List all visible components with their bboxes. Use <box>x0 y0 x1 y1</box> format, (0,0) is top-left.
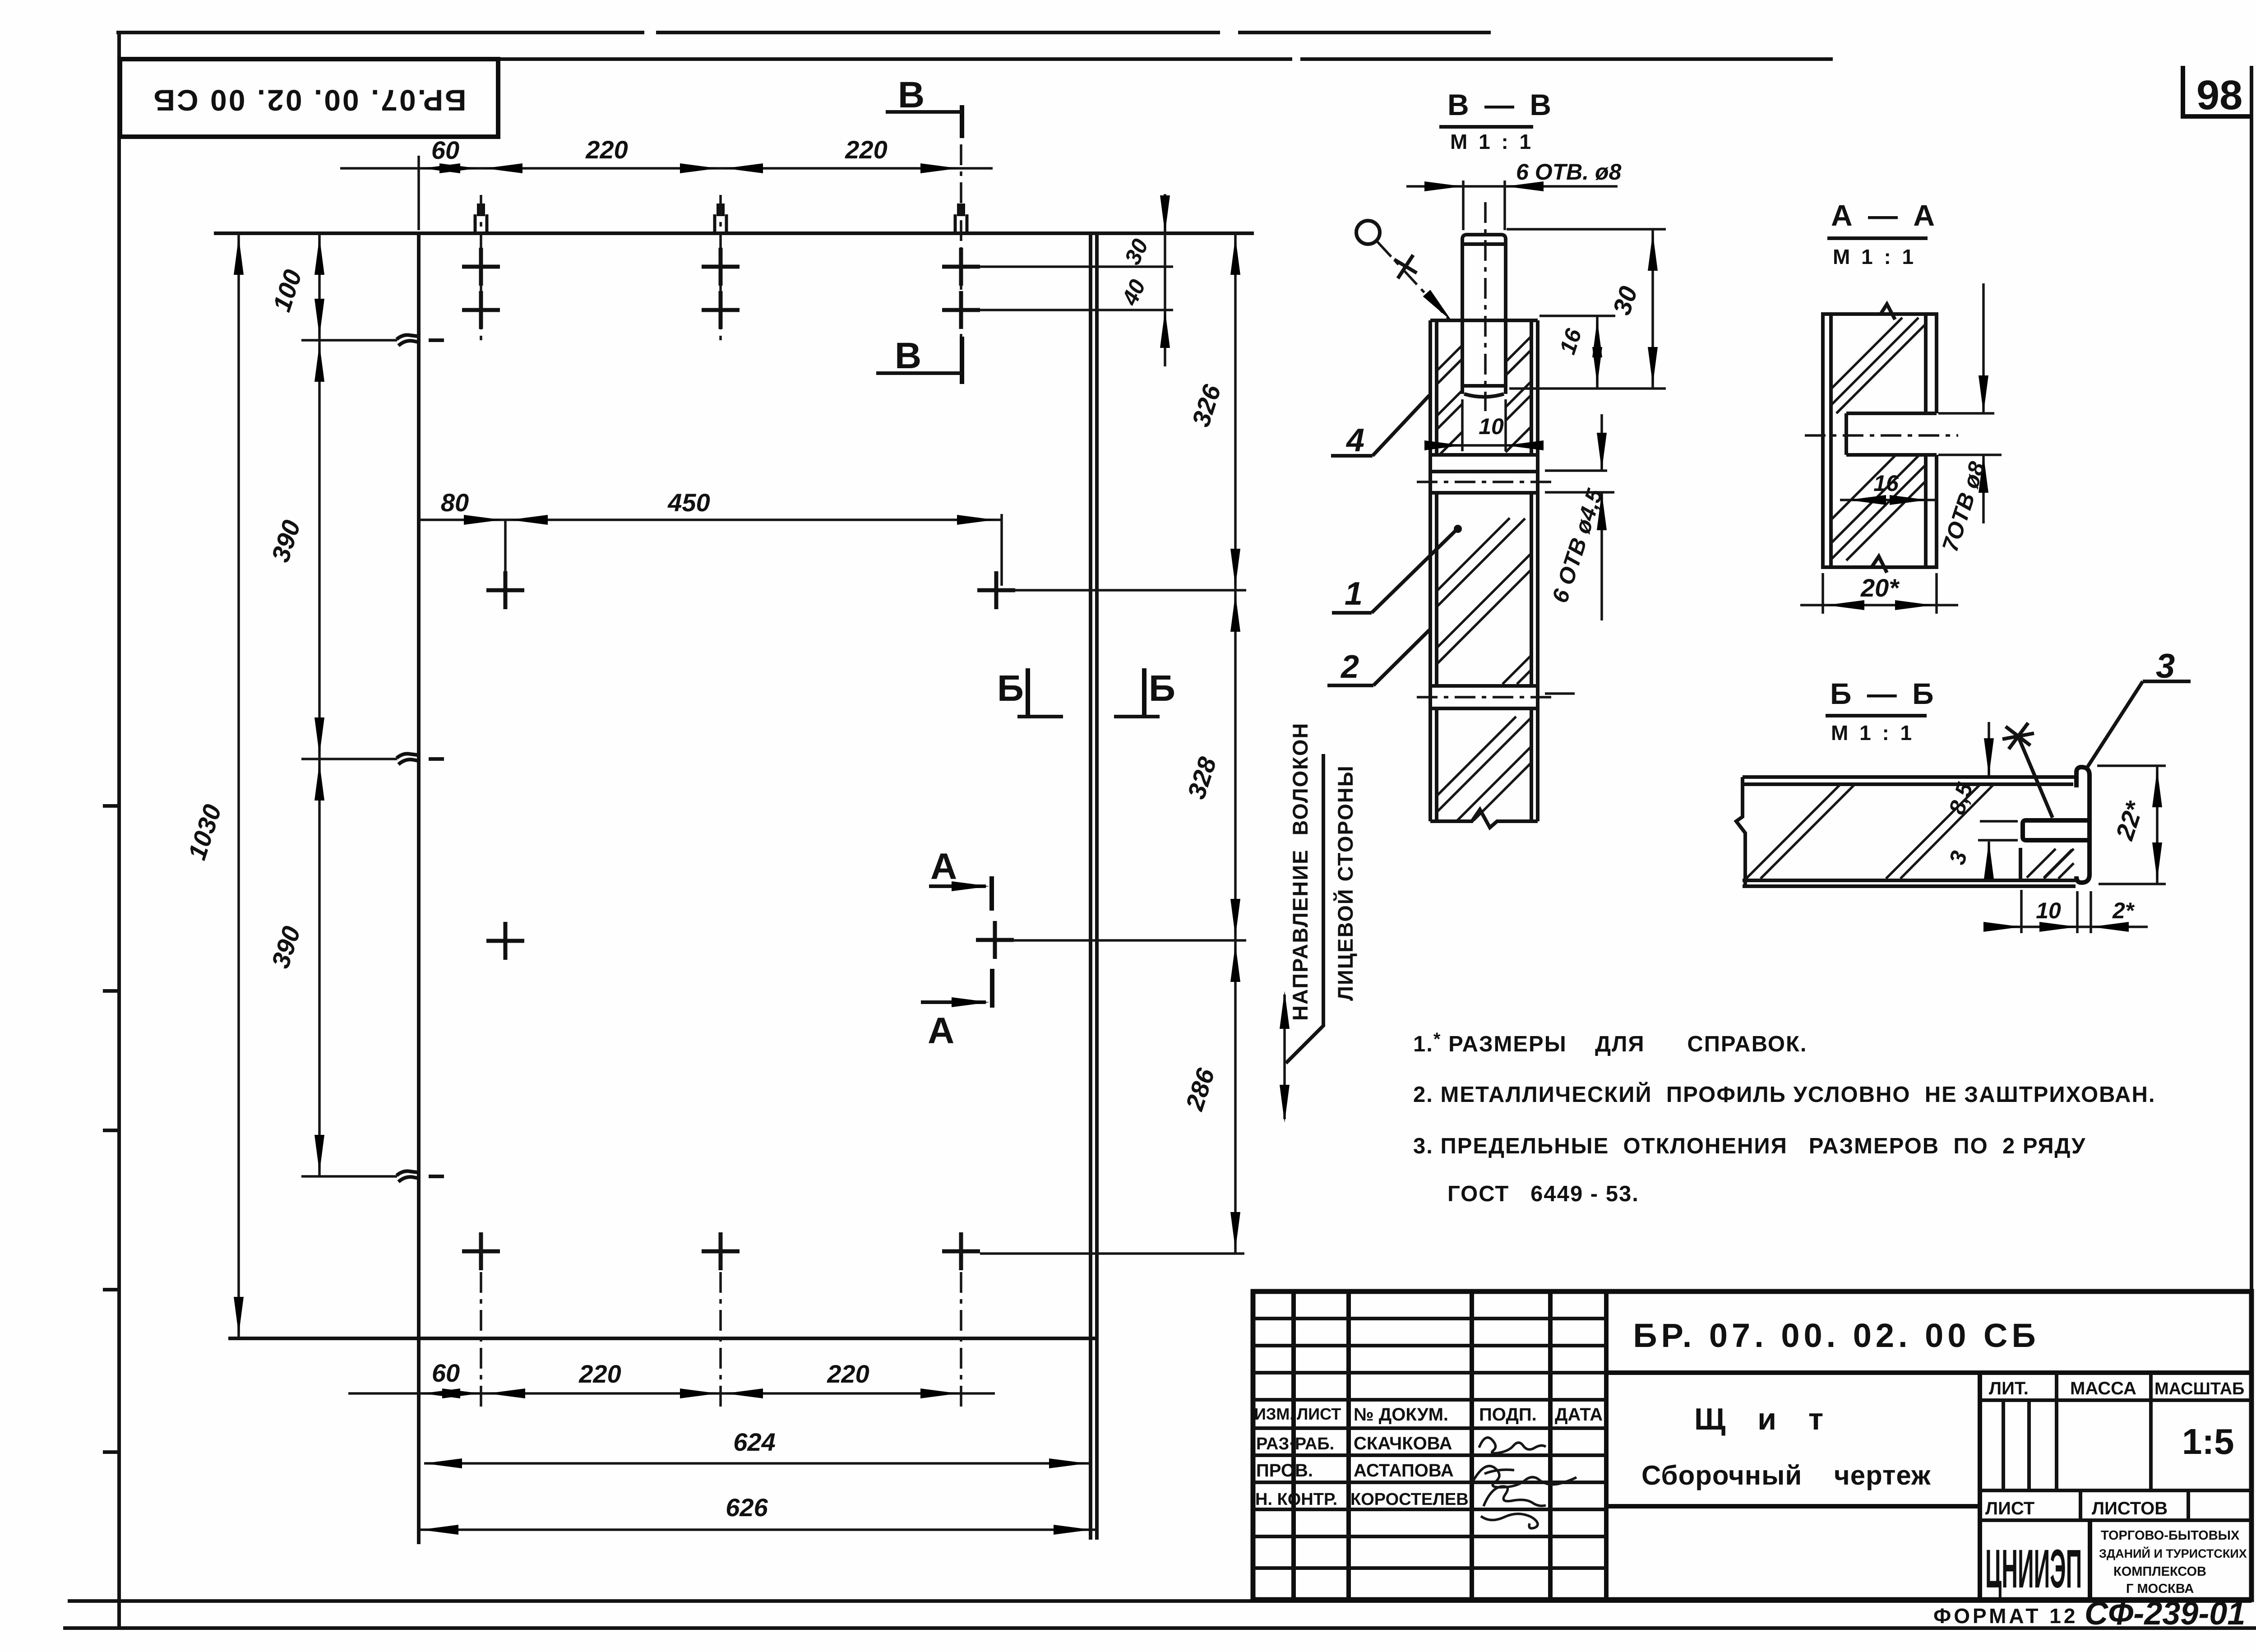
hole dim line with tails <box>1600 414 1603 471</box>
centerline col 1 <box>480 195 482 343</box>
hinge 2 extension <box>301 758 397 760</box>
grain direction label line <box>1286 754 1323 1063</box>
left border fold tick 3 <box>103 1129 121 1132</box>
svg-text:328: 328 <box>1182 753 1222 802</box>
hole cross r2c3 <box>942 291 980 329</box>
dim 30 extension from bolt top <box>1507 228 1666 231</box>
svg-text:Б: Б <box>1149 668 1175 709</box>
centerline col3 bottom <box>960 1234 962 1412</box>
section mark Б right bar <box>1142 668 1146 718</box>
dim 16 slot line <box>1840 499 1936 501</box>
right sub-grid divider <box>1978 1373 1982 1600</box>
hinge left 1 <box>397 335 418 346</box>
junction band 1 line C <box>1430 491 1538 495</box>
hinge left 2 <box>397 754 418 764</box>
junction band 2 line A <box>1430 684 1538 688</box>
svg-text:М 1 : 1: М 1 : 1 <box>1833 245 1916 268</box>
slot top extension <box>1938 412 1994 415</box>
hole cross r1c1 <box>462 248 500 286</box>
sheet outer top border <box>116 31 1491 34</box>
svg-text:220: 220 <box>827 1360 869 1388</box>
left section row lines <box>1253 1317 1606 1320</box>
svg-text:ГОСТ 6449 - 53.: ГОСТ 6449 - 53. <box>1447 1182 1639 1206</box>
hinge 1 extension <box>301 339 397 342</box>
svg-text:АСТАПОВА: АСТАПОВА <box>1354 1461 1454 1481</box>
board lower hatch <box>1437 717 1531 820</box>
weld position circle <box>1356 221 1380 244</box>
extension line r2c3 right <box>980 309 1173 311</box>
board left break end <box>1736 777 1745 886</box>
A-A left inner line <box>1829 314 1833 567</box>
lower band extension dash <box>1545 692 1575 695</box>
section mark A lower arrow <box>921 1000 986 1004</box>
dim 22* bottom extension <box>2099 883 2166 885</box>
extension line bottom row right <box>980 1252 1244 1255</box>
A-A right inner line upper <box>1924 314 1928 413</box>
svg-text:80: 80 <box>441 488 469 517</box>
svg-text:РАЗ·РАБ.: РАЗ·РАБ. <box>1256 1435 1334 1453</box>
svg-text:10: 10 <box>2036 898 2061 923</box>
bolt centerline <box>1484 202 1487 411</box>
right inner border <box>2250 66 2253 1601</box>
section mark B top bar <box>960 105 964 138</box>
svg-text:16: 16 <box>1873 471 1899 496</box>
bolt extension dash right <box>1503 180 1506 230</box>
svg-text:КОРОСТЕЛЕВ: КОРОСТЕЛЕВ <box>1350 1490 1469 1509</box>
A-A slot top <box>1846 412 1937 415</box>
board bottom face <box>1743 879 2076 882</box>
svg-text:ИЗМ.: ИЗМ. <box>1254 1405 1294 1423</box>
svg-text:4: 4 <box>1345 422 1364 458</box>
hinge left 3 inner dash <box>429 1175 444 1178</box>
svg-text:1:5: 1:5 <box>2182 1421 2234 1462</box>
asterisk mark <box>2002 723 2034 749</box>
svg-text:В: В <box>895 335 921 376</box>
svg-text:В: В <box>898 74 925 116</box>
svg-text:БР.07. 00. 02. 00 СБ: БР.07. 00. 02. 00 СБ <box>152 84 466 117</box>
left border fold tick 4 <box>103 1288 121 1291</box>
dim 10 line <box>1435 444 1534 447</box>
section mark A lower bar <box>990 969 994 1008</box>
slot bottom extension <box>1938 453 2002 456</box>
svg-text:326: 326 <box>1186 381 1226 430</box>
section mark A upper arrow <box>929 884 986 888</box>
svg-text:60: 60 <box>431 136 459 164</box>
svg-text:10: 10 <box>1479 414 1504 439</box>
board upper left inner <box>1435 493 1438 686</box>
svg-text:ЛИСТ: ЛИСТ <box>1985 1499 2034 1518</box>
shelf cross row1 right <box>977 571 1015 609</box>
svg-text:3: 3 <box>1944 848 1972 868</box>
shelf cross row2 right <box>976 921 1014 959</box>
svg-text:Б — Б: Б — Б <box>1830 677 1937 710</box>
svg-text:М 1 : 1: М 1 : 1 <box>1450 130 1534 153</box>
svg-text:ЛИЦЕВОЙ СТОРОНЫ: ЛИЦЕВОЙ СТОРОНЫ <box>1333 765 1357 1001</box>
centerline col1 bottom <box>480 1234 482 1412</box>
dim 16 extension top <box>1539 315 1615 317</box>
dim 16 extension bottom <box>1509 387 1666 390</box>
hole cross r3c2 <box>702 1232 740 1270</box>
weld leader dash-dot <box>1377 241 1449 319</box>
tongue bottom extension <box>1978 839 2018 842</box>
svg-text:БР. 07. 00. 02. 00 СБ: БР. 07. 00. 02. 00 СБ <box>1633 1317 2039 1354</box>
extension line shelf row1 right <box>1014 589 1246 592</box>
dim 20* line <box>1821 573 1824 614</box>
A-A right inner line lower <box>1924 455 1928 567</box>
bottom dim line 60/220/220 <box>348 1392 995 1395</box>
top edge hinge slot 3 <box>955 204 967 233</box>
grain double arrow <box>1283 995 1286 1119</box>
hinge left 3 <box>397 1171 418 1182</box>
bottom outer border <box>63 1626 2256 1630</box>
hole cross r3c3 <box>942 1232 980 1270</box>
channel left wall inner <box>1435 320 1438 455</box>
hole cross r3c1 <box>462 1232 500 1270</box>
center divider <box>1604 1291 1609 1600</box>
top edge hinge slot 2 <box>715 204 726 233</box>
board upper hatch <box>1437 518 1531 684</box>
board lower left inner <box>1435 708 1438 821</box>
A-A hatch bottom <box>1831 455 1926 560</box>
svg-text:ТОРГОВО-БЫТОВЫХ: ТОРГОВО-БЫТОВЫХ <box>2101 1528 2240 1543</box>
hole cross r1c2 <box>702 248 740 286</box>
svg-text:М 1 : 1: М 1 : 1 <box>1831 721 1914 745</box>
sheet inner top border <box>119 57 1833 61</box>
svg-text:390: 390 <box>266 923 306 972</box>
junction band 1 line B <box>1430 470 1538 473</box>
svg-text:Щ и т: Щ и т <box>1694 1402 1835 1436</box>
svg-text:СФ-239-01: СФ-239-01 <box>2085 1596 2245 1632</box>
dim 10 right extension <box>2076 891 2079 933</box>
page number box <box>2183 66 2251 116</box>
A-A outer outline <box>1823 314 1937 567</box>
junction band 1 centerline <box>1417 481 1551 483</box>
board lower right inner <box>1530 708 1533 821</box>
A-A slot bottom <box>1846 453 1937 457</box>
asterisk leader to tongue <box>2018 736 2053 818</box>
list row dividers <box>2079 1490 2082 1520</box>
svg-text:Сборочный чертеж: Сборочный чертеж <box>1641 1460 1931 1490</box>
hole cross r2c1 <box>462 291 500 329</box>
section mark A upper bar <box>989 876 994 911</box>
svg-text:98: 98 <box>2196 72 2242 118</box>
dim 624 line <box>424 1462 1091 1465</box>
groove area hatch <box>2027 849 2072 878</box>
svg-text:220: 220 <box>585 135 628 164</box>
junction band 2 line B <box>1430 707 1538 710</box>
name cell bottom line <box>1606 1504 1980 1509</box>
dim 10 left extension <box>2020 890 2023 933</box>
section Б-Б underline <box>1826 714 1927 717</box>
centerline col 3 <box>960 144 962 343</box>
channel hatch left <box>1437 345 1462 454</box>
svg-text:60: 60 <box>432 1359 460 1387</box>
hole dim extension top <box>1545 469 1607 472</box>
lit cell divider <box>2055 1373 2058 1490</box>
svg-text:ПОДП.: ПОДП. <box>1479 1405 1537 1425</box>
edge profile outline <box>2076 767 2090 883</box>
extension line r1c3 right <box>980 265 1173 268</box>
right small dim 30/40 line <box>1164 194 1166 366</box>
svg-text:Н. КОНТР.: Н. КОНТР. <box>1255 1490 1337 1509</box>
svg-text:7ОТВ ø8: 7ОТВ ø8 <box>1937 458 1990 555</box>
dim 10 extensions <box>1461 399 1464 451</box>
bolt extension dash left <box>1462 180 1465 230</box>
dim 22* line <box>2156 766 2159 884</box>
dim 16 line <box>1596 316 1599 389</box>
svg-text:390: 390 <box>266 517 306 565</box>
dim 30 line <box>1651 229 1654 389</box>
svg-text:ЗДАНИЙ И ТУРИСТСКИХ: ЗДАНИЙ И ТУРИСТСКИХ <box>2099 1546 2247 1560</box>
profile tongue <box>2023 820 2089 840</box>
massa cell divider <box>2149 1373 2153 1490</box>
svg-text:40: 40 <box>1117 276 1151 310</box>
dim 3 arrow <box>1988 842 1990 875</box>
svg-text:ЛИТ.: ЛИТ. <box>1989 1379 2029 1398</box>
svg-text:МАСШТАБ: МАСШТАБ <box>2154 1379 2244 1398</box>
svg-text:Г МОСКВА: Г МОСКВА <box>2126 1582 2194 1596</box>
A-A top edge break <box>1881 304 1895 319</box>
top dim extension at panel left <box>417 156 420 230</box>
dim 8,5 dash-dot with arrow <box>1988 722 1990 749</box>
panel right edge inner line (extended down) <box>1095 233 1099 1540</box>
channel left wall outer <box>1428 320 1432 821</box>
channel right wall outer <box>1536 320 1539 821</box>
svg-text:1.* РАЗМЕРЫ ДЛЯ СПРАВО: 1.* РАЗМЕРЫ ДЛЯ СПРАВОК. <box>1413 1029 1808 1056</box>
svg-text:ПРОВ.: ПРОВ. <box>1256 1461 1313 1481</box>
svg-text:СКАЧКОВА: СКАЧКОВА <box>1354 1434 1452 1453</box>
left dim 1030 line <box>237 233 240 1338</box>
hinge 3 extension <box>301 1175 397 1178</box>
right dim 326/328/286 line <box>1234 233 1237 1254</box>
left border fold tick 5 <box>103 1450 121 1454</box>
section B-B title underline <box>1439 125 1533 129</box>
dim 450 right extension <box>1000 514 1003 586</box>
dim 10/2* line <box>1983 925 2148 928</box>
hole cross r2c2 <box>702 291 740 329</box>
hinge left 2 inner dash <box>429 757 444 761</box>
svg-text:450: 450 <box>667 488 710 517</box>
centerline shelf left <box>504 520 507 572</box>
svg-text:А — А: А — А <box>1831 199 1938 232</box>
svg-text:100: 100 <box>267 266 307 315</box>
section mark B top line <box>886 110 962 114</box>
junction band 1 line A <box>1430 453 1538 457</box>
logo cell divider <box>2088 1520 2092 1600</box>
svg-text:6 ОТВ. ø8: 6 ОТВ. ø8 <box>1516 159 1622 185</box>
section mark Б right line <box>1114 715 1160 718</box>
shelf cross row1 left <box>486 571 524 609</box>
centerline col 2 <box>719 195 722 343</box>
svg-text:ЛИСТ: ЛИСТ <box>1297 1405 1341 1423</box>
board hatch pair 1 <box>1746 784 1855 879</box>
top-left document stamp box <box>120 59 498 137</box>
section A-A underline <box>1827 236 1928 240</box>
section mark B lower bar <box>960 337 964 384</box>
left border fold tick 1 <box>103 804 121 808</box>
svg-text:1030: 1030 <box>182 801 227 863</box>
svg-text:2. МЕТАЛЛИЧЕСКИЙ ПРОФИЛЬ УСЛО: 2. МЕТАЛЛИЧЕСКИЙ ПРОФИЛЬ УСЛОВНО НЕ ЗАШТ… <box>1413 1082 2155 1107</box>
svg-text:1: 1 <box>1345 576 1363 612</box>
svg-text:ФОРМАТ 12: ФОРМАТ 12 <box>1933 1604 2078 1628</box>
panel top edge (extended left and right for dims) <box>214 231 1254 235</box>
dim line for bolt d8 <box>1406 185 1618 188</box>
dim 626 line <box>421 1528 1095 1531</box>
svg-text:16: 16 <box>1555 325 1587 357</box>
svg-text:286: 286 <box>1180 1064 1220 1114</box>
svg-text:30: 30 <box>1119 235 1153 268</box>
dim 7otv line bottom arrow <box>1982 455 1985 523</box>
lit sub dividers <box>2002 1400 2005 1490</box>
bolt head chamfer line <box>1462 242 1506 246</box>
hole cross r1c3 <box>942 248 980 286</box>
shelf cross row2 left <box>486 922 524 960</box>
top dim line 60/220/220 <box>340 167 993 170</box>
svg-text:А: А <box>930 846 957 887</box>
section mark Б left bar <box>1026 668 1030 718</box>
section mark B lower line <box>876 371 962 375</box>
svg-text:2: 2 <box>1340 649 1359 685</box>
svg-text:220: 220 <box>845 135 887 164</box>
dim 7otv line top arrow <box>1982 283 1985 413</box>
top edge hinge slot 1 <box>475 204 487 233</box>
lit/massa/masshtab header underline <box>1980 1398 2251 1402</box>
svg-text:220: 220 <box>578 1360 621 1388</box>
hole dim extension bottom <box>1545 491 1614 494</box>
A-A slot left end <box>1845 413 1848 455</box>
svg-text:НАПРАВЛЕНИЕ ВОЛОКОН: НАПРАВЛЕНИЕ ВОЛОКОН <box>1288 722 1312 1021</box>
svg-text:20*: 20* <box>1860 574 1900 602</box>
svg-text:МАССА: МАССА <box>2070 1379 2136 1398</box>
svg-text:3. ПРЕДЕЛЬНЫЕ ОТКЛОНЕНИЯ РА: 3. ПРЕДЕЛЬНЫЕ ОТКЛОНЕНИЯ РАЗМЕРОВ ПО 2 Р… <box>1413 1134 2086 1158</box>
svg-text:ЛИСТОВ: ЛИСТОВ <box>2092 1499 2168 1518</box>
list row bottom line <box>1980 1518 2251 1522</box>
svg-text:624: 624 <box>733 1428 775 1456</box>
svg-text:2*: 2* <box>2112 898 2135 923</box>
A-A slot centerline <box>1805 434 1958 437</box>
svg-text:№ ДОКУМ.: № ДОКУМ. <box>1354 1405 1448 1425</box>
channel hatch right <box>1506 336 1531 452</box>
left border fold tick 2 <box>103 989 121 993</box>
svg-text:ЦНИИЭП: ЦНИИЭП <box>1985 1538 2082 1599</box>
left dim 100/390/390 line <box>318 233 321 1176</box>
channel right wall inner <box>1530 320 1533 455</box>
title block outer frame <box>1253 1291 2251 1600</box>
hinge left 1 inner dash <box>429 338 444 342</box>
bolt bottom cap <box>1462 386 1506 397</box>
svg-text:30: 30 <box>1607 283 1643 319</box>
A-A hatch top <box>1831 318 1926 413</box>
designation line <box>1606 1370 2251 1375</box>
svg-text:626: 626 <box>726 1493 768 1522</box>
extension line shelf row2 right <box>1013 939 1246 942</box>
panel right edge outer line (extended down) <box>1089 233 1092 1540</box>
section mark Б left line <box>1017 715 1063 718</box>
svg-text:Б: Б <box>997 668 1024 709</box>
dim 2* extension <box>2090 891 2092 933</box>
left section column lines <box>1291 1291 1296 1600</box>
panel bottom edge (extended left for dim) <box>228 1337 1097 1340</box>
channel top face <box>1430 319 1538 322</box>
A-A bottom edge break <box>1872 556 1887 573</box>
board hatch corner <box>2044 849 2074 879</box>
list row top line <box>1980 1489 2251 1492</box>
dim 80/450 line <box>419 518 1003 521</box>
board hatch pair 2 <box>1886 784 1994 879</box>
signature 1 <box>1479 1438 1546 1453</box>
svg-text:ДАТА: ДАТА <box>1555 1405 1603 1425</box>
svg-text:6 ОТВ ø4,5: 6 ОТВ ø4,5 <box>1547 486 1608 606</box>
svg-text:В — В: В — В <box>1447 88 1555 121</box>
signature 3 <box>1481 1486 1546 1528</box>
dim 22* top extension <box>2097 764 2166 767</box>
junction band 2 centerline <box>1417 696 1551 699</box>
bolt body <box>1462 235 1506 394</box>
board upper right inner <box>1530 493 1533 686</box>
centerline col2 bottom <box>719 1234 722 1412</box>
svg-text:КОМПЛЕКСОВ: КОМПЛЕКСОВ <box>2113 1564 2206 1579</box>
panel left edge (extended below for dims) <box>417 233 421 1544</box>
bottom inner border <box>68 1599 2251 1603</box>
left border <box>117 32 121 1628</box>
signature 2 <box>1474 1466 1576 1487</box>
svg-text:А: А <box>928 1010 954 1051</box>
board top face double line <box>1743 775 2076 779</box>
board bottom edge with break <box>1430 810 1538 828</box>
tongue top extension <box>1980 820 2018 823</box>
board groove face below tongue <box>2019 848 2022 879</box>
svg-text:22*: 22* <box>2110 797 2149 843</box>
weld X mark <box>1394 255 1417 278</box>
